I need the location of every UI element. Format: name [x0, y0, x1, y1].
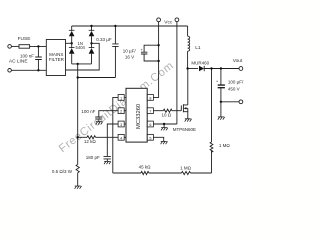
svg-text:AC LINE: AC LINE — [9, 59, 28, 65]
wire 0.33uF return to negative rail — [78, 77, 116, 79]
mains filter box — [46, 40, 65, 76]
diode D5 MUR460 triangle — [199, 66, 204, 71]
svg-text:4: 4 — [120, 136, 122, 140]
ground below 0.5ohm resistor — [75, 186, 82, 189]
node output return tap — [220, 101, 222, 103]
terminal Vout — [239, 67, 243, 71]
wire lower AC line — [11, 69, 46, 71]
wire left bridge leg — [71, 26, 73, 64]
node sense 12k tap — [77, 136, 79, 138]
wire Vcc terminal down to pin 8 — [153, 22, 158, 98]
inductor L1 leads — [187, 26, 189, 69]
resistor R 0.5ohm 3W zigzag — [76, 164, 79, 172]
svg-text:8: 8 — [149, 96, 151, 100]
capacitor C 10uF loop — [144, 45, 159, 61]
wire pin 1 feedback — [113, 97, 118, 173]
wire filter bottom output to right bridge leg — [66, 43, 100, 70]
wire top DC rail — [72, 25, 188, 27]
svg-text:0.33 µF: 0.33 µF — [96, 37, 112, 42]
wire pin 2 to 100nF — [99, 111, 118, 122]
pin 1 box — [118, 95, 124, 101]
inductor L1 coil — [188, 36, 190, 51]
pin 6 box — [147, 121, 153, 127]
terminal Vcc return — [175, 18, 179, 22]
node pin6 ground tap — [163, 123, 165, 125]
capacitor C 100nF pin2 plates — [95, 117, 102, 119]
svg-text:0.5 Ω/3 W: 0.5 Ω/3 W — [52, 169, 73, 174]
svg-text:5404: 5404 — [76, 45, 86, 50]
wire pin 4 to 12k — [78, 136, 118, 138]
svg-text:7: 7 — [149, 110, 151, 114]
ground below 180pF — [104, 161, 111, 164]
ground below pin 6 — [161, 128, 168, 131]
wire feedback divider vertical — [211, 69, 213, 174]
svg-text:Vcc: Vcc — [164, 20, 173, 26]
capacitor C 180pF plates — [104, 156, 111, 159]
wire pin 3 to 180pF — [107, 124, 118, 161]
svg-text:450 V: 450 V — [228, 87, 240, 92]
transistor Q source arrow — [184, 107, 187, 109]
wire fuse to mains filter — [30, 45, 47, 47]
node lower AC junction — [37, 69, 39, 71]
capacitor C 100nF AC plates — [35, 57, 42, 60]
node 10uF loop bottom — [157, 60, 159, 62]
diode D MUR460 cathode bar — [203, 66, 205, 71]
capacitor C 100uF 450V leads — [220, 69, 222, 117]
wire filter to left bridge leg — [66, 42, 72, 44]
svg-text:10 µF/: 10 µF/ — [123, 49, 137, 54]
svg-text:100 nF: 100 nF — [81, 109, 95, 114]
pin 7 box — [147, 108, 153, 114]
wire right bridge leg — [91, 26, 93, 64]
diode D3 bridge top-right — [89, 31, 95, 36]
pin 5 box — [147, 134, 153, 140]
pin 8 box — [147, 95, 153, 101]
diode D4 bridge bottom-right — [89, 48, 95, 54]
terminal Vout return — [239, 100, 243, 104]
svg-text:L1: L1 — [195, 45, 201, 51]
svg-text:3: 3 — [120, 123, 122, 127]
node bridge left mid — [71, 42, 73, 44]
ground below output cap — [218, 117, 225, 120]
transistor Q MTP6N60E mosfet bars — [181, 104, 183, 112]
fuse F1 body — [19, 45, 30, 49]
node 0.33uF return — [77, 76, 79, 78]
node feedback tap — [210, 67, 212, 69]
svg-text:MUR460: MUR460 — [191, 60, 209, 65]
wire MUR460 to Vout — [204, 68, 239, 70]
ground below mosfet source — [185, 119, 192, 122]
wire 0.33uF branch leads — [114, 26, 116, 78]
svg-text:10 Ω: 10 Ω — [161, 113, 171, 118]
transistor Q drain lead — [183, 69, 187, 105]
svg-text:MAINS: MAINS — [49, 52, 63, 57]
op-amp U1 MC33260 body — [126, 88, 147, 142]
wire fuse input to fuse — [11, 45, 19, 47]
svg-text:100 nF: 100 nF — [20, 54, 34, 59]
diode D1 cathode bar — [69, 29, 75, 31]
diode D3 cathode bar — [89, 29, 95, 31]
wire gnd terminal down to pin 6 line — [176, 22, 178, 124]
wire pin stubs to IC body — [124, 97, 126, 137]
svg-text:100 µF/: 100 µF/ — [228, 79, 244, 84]
capacitor C 100uF 450V plates — [218, 85, 225, 88]
svg-text:MC33260: MC33260 — [136, 104, 142, 129]
diode D1 bridge top-left — [69, 31, 75, 36]
terminal AC line bottom — [8, 69, 12, 73]
svg-text:2: 2 — [120, 110, 122, 114]
wire pin 7 gate drive — [153, 110, 181, 112]
node 0.33uF rail tap — [114, 25, 116, 27]
capacitor C 10uF plates — [141, 52, 147, 54]
svg-text:1: 1 — [120, 96, 122, 100]
svg-text:5: 5 — [149, 136, 151, 140]
resistor R 1Mohm horizontal zigzag — [182, 171, 191, 174]
pin 4 box — [118, 134, 124, 140]
watermark FreeCircuitDiagram.Com — [57, 60, 177, 156]
resistor R 1Mohm vertical zigzag — [210, 142, 213, 152]
svg-text:Vout: Vout — [233, 58, 243, 64]
svg-text:1 MΩ: 1 MΩ — [180, 166, 192, 171]
svg-text:6: 6 — [149, 123, 151, 127]
pin 3 box — [118, 121, 124, 127]
resistor R 45kohm zigzag — [141, 171, 149, 174]
diode D2 bridge bottom-left — [69, 48, 75, 54]
wire pin 5 to ground — [153, 137, 163, 141]
wire pin 6 to ground net — [153, 124, 177, 128]
svg-text:180 pF: 180 pF — [86, 155, 100, 160]
terminal Vcc — [157, 18, 161, 22]
resistor R 10ohm zigzag — [163, 109, 172, 112]
wire L1 to MUR460 anode — [188, 68, 198, 70]
transistor Q source lead — [183, 108, 187, 119]
diode D2 cathode bar — [69, 47, 75, 49]
ground below pin2 100nF — [96, 122, 103, 125]
node negative rail tap — [77, 63, 79, 65]
wire bottom bridge rail — [72, 63, 92, 65]
node output cap tap — [220, 67, 222, 69]
wire output return terminal — [221, 101, 239, 103]
node bridge right top — [90, 25, 92, 27]
capacitor C 0.33uF plates — [112, 44, 118, 47]
svg-text:16 V: 16 V — [125, 54, 134, 59]
ground below pin 5 — [161, 141, 168, 144]
svg-text:1 MΩ: 1 MΩ — [219, 143, 231, 148]
diode D4 cathode bar — [89, 47, 95, 49]
wire negative rail sense line — [77, 64, 79, 186]
node fuse junction — [37, 45, 39, 47]
node 10uF loop top — [157, 44, 159, 46]
svg-text:45 kΩ: 45 kΩ — [139, 164, 152, 169]
svg-text:MTP6N60E: MTP6N60E — [173, 127, 196, 132]
pin 2 box — [118, 108, 124, 114]
svg-text:FUSE: FUSE — [18, 36, 31, 42]
svg-text:12 kΩ: 12 kΩ — [84, 139, 97, 144]
node L1 drain junction — [186, 67, 188, 69]
capacitor C 100nF AC leads — [37, 46, 39, 70]
node bridge right mid — [90, 42, 92, 44]
resistor R 12kohm zigzag — [87, 136, 96, 139]
svg-text:FILTER: FILTER — [49, 57, 65, 62]
wire feedback bottom chain — [113, 172, 212, 174]
terminal AC line top — [8, 45, 12, 49]
